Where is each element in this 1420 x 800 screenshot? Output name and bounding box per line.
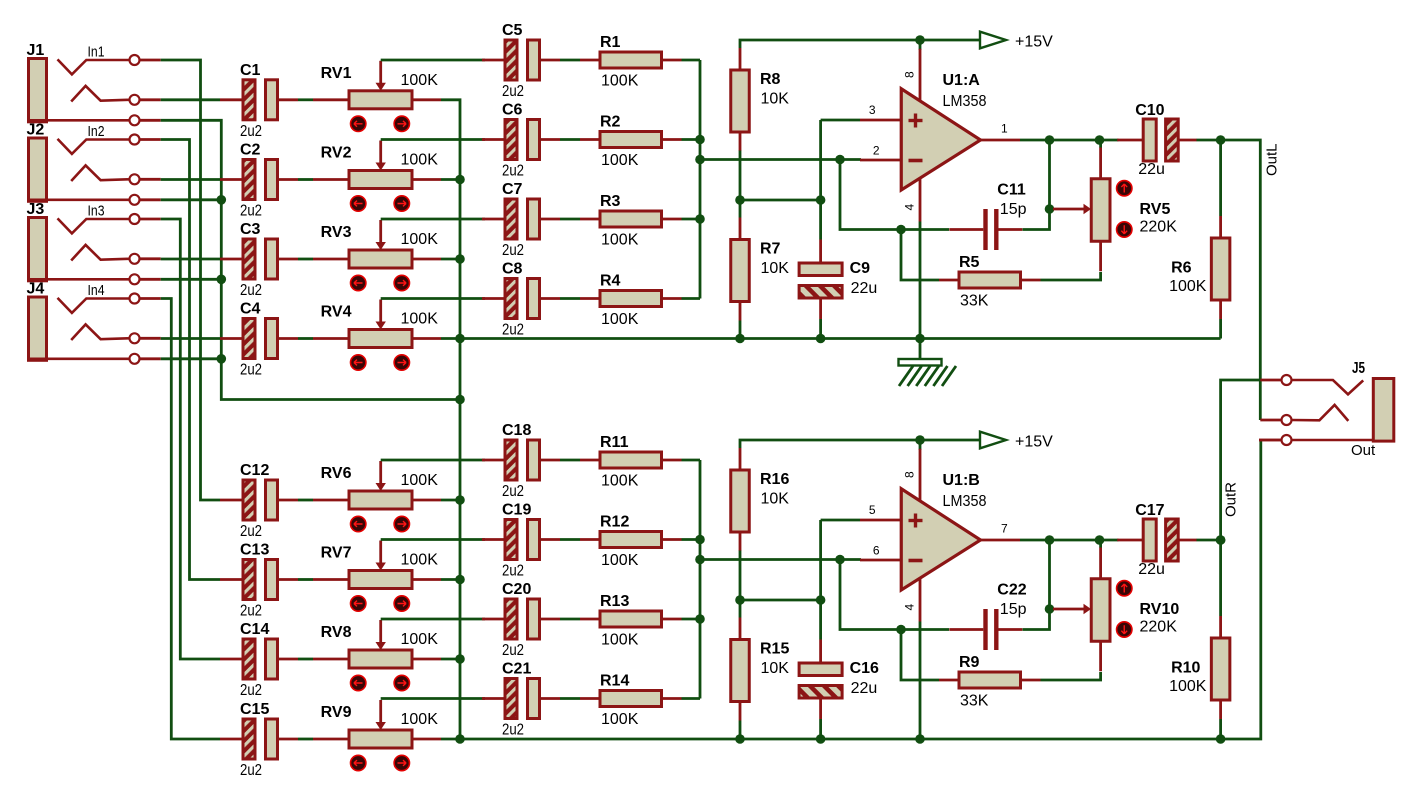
label C11 [997,182,1026,199]
capacitor C13 [220,560,298,600]
label C14 [240,621,269,638]
pin number 3 [869,103,876,117]
label R12 [600,514,629,531]
svg-text:J1: J1 [27,42,45,59]
wire C15 to RV9 [298,738,313,741]
value RV3 100K [401,231,439,248]
net label In1 [88,44,105,61]
wire divider to bias [740,199,821,202]
label C5 [502,22,523,39]
value RV6 100K [401,472,439,489]
junction wiper tap [1045,204,1055,214]
svg-text:R11: R11 [600,434,629,451]
label RV6 [321,465,352,482]
value C10 22u [1138,161,1165,178]
resistor R14 [580,691,682,707]
svg-text:C22: C22 [997,582,1026,599]
svg-text:100K: 100K [1169,678,1207,695]
wire pot top [1099,140,1102,148]
junction out node [1216,535,1226,545]
label C17 [1135,502,1164,519]
potentiometer RV6 [313,461,441,532]
junction bus R12 [695,535,705,545]
svg-text:C1: C1 [240,62,261,79]
capacitor C6 [482,120,560,160]
label J3 [27,201,45,218]
label R4 [600,273,621,290]
net OutL [1221,140,1261,420]
svg-text:100K: 100K [401,72,439,89]
svg-text:C14: C14 [240,621,269,638]
svg-text:10K: 10K [761,660,790,677]
svg-text:2u2: 2u2 [240,123,262,140]
svg-text:100K: 100K [401,552,439,569]
svg-text:RV10: RV10 [1140,601,1180,618]
junction R lower rail [735,734,745,744]
label C13 [240,542,269,559]
svg-text:C6: C6 [502,102,523,119]
resistor R6 [1211,216,1230,319]
value C18 2u2 [502,483,524,500]
capacitor C1 [220,80,298,120]
wire feedback [840,560,949,630]
svg-text:In4: In4 [88,282,105,299]
resistor R11 [580,452,682,468]
label R15 [760,641,789,658]
svg-text:RV4: RV4 [321,304,352,321]
resistor R1 [580,52,682,68]
svg-text:C16: C16 [850,660,879,677]
capacitor C2 [220,160,298,200]
wire C18 to R11 [560,459,580,462]
label RV2 [321,145,352,162]
resistor R8 [731,48,750,151]
junction pot bus [455,175,465,185]
label J5 [1352,360,1365,377]
wire C20 to R13 [560,618,580,621]
node summing bus B [699,460,702,699]
wire bias net [819,120,822,240]
capacitor C10 [1117,119,1197,161]
value RV5 220K [1140,219,1178,236]
value R3 100K [601,232,639,249]
resistor R4 [580,291,682,307]
label C21 [502,661,531,678]
wire pot bus top [441,100,460,739]
capacitor C5 [482,40,560,80]
junction +15V pin8 [915,35,925,45]
label J2 [27,122,45,139]
junction decoupling rail [816,734,826,744]
svg-text:2u2: 2u2 [502,322,524,339]
pin number 8 [903,471,917,478]
wire RV8 wiper row [381,618,485,621]
wire RV9 wiper row [381,697,485,700]
svg-text:10K: 10K [761,260,790,277]
svg-text:C11: C11 [997,182,1026,199]
wire sleeve [161,357,222,360]
wire pot terminal [441,578,460,581]
svg-text:100K: 100K [1169,278,1207,295]
wire pot terminal [441,499,460,502]
resistor R2 [580,132,682,148]
svg-text:2u2: 2u2 [240,682,262,699]
pin number 7 [1001,522,1008,536]
svg-text:2u2: 2u2 [502,642,524,659]
wire R11 to bus [682,459,701,462]
label C7 [502,181,523,198]
wire pot terminal [441,258,460,261]
pin number 5 [869,503,876,517]
label C12 [240,462,269,479]
junction output 2 [1095,135,1105,145]
value C21 2u2 [502,722,524,739]
value C5 2u2 [502,83,524,100]
svg-text:J4: J4 [27,281,45,298]
wire ring to cap [161,98,220,101]
wire C21 to R14 [560,697,580,700]
value R2 100K [601,152,639,169]
svg-text:22u: 22u [1138,161,1165,178]
svg-text:OutL: OutL [1264,143,1281,176]
svg-text:C9: C9 [850,260,871,277]
wire C14 to RV8 [298,658,313,661]
svg-text:100K: 100K [601,711,639,728]
svg-text:100K: 100K [601,473,639,490]
wire C12 to RV6 [298,499,313,502]
junction pin6 node [835,555,845,565]
value RV9 100K [401,711,439,728]
label C1 [240,62,261,79]
label C3 [240,221,261,238]
svg-text:R8: R8 [760,71,781,88]
wire In2 [161,140,220,580]
svg-text:22u: 22u [851,680,878,697]
junction decoupling rail [816,334,826,344]
junction pot bus [455,254,465,264]
junction feedback [896,225,906,235]
value C12 2u2 [240,523,262,540]
svg-text:Out: Out [1351,442,1376,459]
value C19 2u2 [502,563,524,580]
capacitor C22 [949,609,1022,650]
svg-text:10K: 10K [761,491,790,508]
label C15 [240,701,269,718]
wire RV7 wiper row [381,538,485,541]
svg-text:4: 4 [903,204,917,211]
svg-text:2u2: 2u2 [502,242,524,259]
svg-text:33K: 33K [960,693,989,710]
wire cap out [1197,139,1221,142]
wire R3 to bus [682,218,701,221]
junction output 1 [1045,135,1055,145]
wire feedback to R [901,630,939,681]
svg-text:RV7: RV7 [321,545,352,562]
wire pot terminal [441,178,460,181]
svg-text:C19: C19 [502,502,531,519]
junction output 2 [1095,535,1105,545]
wire divider node [739,151,742,218]
junction divider [735,195,745,205]
svg-text:J3: J3 [27,201,45,218]
svg-text:C5: C5 [502,22,523,39]
value C17 22u [1138,561,1165,578]
svg-text:+15V: +15V [1015,434,1053,451]
wire cap to output node [1023,209,1050,230]
wire C3 to RV3 [298,258,313,261]
value RV7 100K [401,552,439,569]
capacitor C3 [220,239,298,279]
net label Out [1351,442,1376,459]
wire In3 [161,219,220,659]
svg-text:100K: 100K [401,311,439,328]
capacitor C18 [482,440,560,480]
label R1 [600,34,621,51]
wire ring to cap [161,258,220,261]
svg-text:RV5: RV5 [1140,201,1171,218]
connector J5 [1259,375,1394,445]
value C22 15p [1000,601,1027,618]
junction bus R2 [695,135,705,145]
svg-text:2u2: 2u2 [240,762,262,779]
wire pin4 to rail B [919,622,922,740]
junction pot bus [455,334,465,344]
value C3 2u2 [240,282,262,299]
wire pin8 stub [919,40,922,50]
svg-text:100K: 100K [601,552,639,569]
svg-text:C13: C13 [240,542,269,559]
value R7 10K [761,260,790,277]
value RV8 100K [401,631,439,648]
value C2 2u2 [240,203,262,220]
value R15 10K [761,660,790,677]
label RV1 [321,65,352,82]
wire ground rail B [460,440,1261,739]
label RV5 [1140,201,1171,218]
wire R12 to bus [682,538,701,541]
junction pot bus [455,654,465,664]
wire output node [1020,539,1119,542]
wire C4 to RV4 [298,337,313,340]
wire C7 to R3 [560,218,580,221]
svg-text:In3: In3 [88,203,105,220]
wire pot terminal [441,658,460,661]
svg-text:2u2: 2u2 [502,163,524,180]
power +15V symbol [980,32,1006,49]
svg-text:C7: C7 [502,181,523,198]
wire divider node [739,551,742,618]
wire C1 to RV1 [298,98,313,101]
label RV3 [321,224,352,241]
value C14 2u2 [240,682,262,699]
label C6 [502,102,523,119]
op-amp U1:A [860,49,1020,222]
svg-text:100K: 100K [401,472,439,489]
net label In2 [88,123,105,140]
pin number 4 [903,204,917,211]
value R14 100K [601,711,639,728]
wire output to wiper [1048,140,1051,209]
wire cap out [1197,539,1221,542]
svg-text:+15V: +15V [1015,34,1053,51]
wire pin4 to rail [919,222,922,339]
pin number 2 [873,144,880,158]
junction divider [735,595,745,605]
potentiometer RV10 [1053,547,1132,671]
svg-text:R3: R3 [600,193,621,210]
label U1:B [943,472,980,489]
svg-text:In1: In1 [88,44,105,61]
ground [899,339,957,387]
capacitor C20 [482,599,560,639]
resistor R13 [580,611,682,627]
wire RV1 wiper row [381,59,485,62]
svg-text:2u2: 2u2 [240,603,262,620]
wire ring to cap [161,337,220,340]
capacitor C9 [799,240,842,320]
svg-text:R5: R5 [959,254,980,271]
capacitor C19 [482,520,560,560]
svg-text:R7: R7 [760,241,781,258]
pin number 4 [903,604,917,611]
junction out node [1216,135,1226,145]
wire R lower to rail [739,721,742,740]
svg-text:7: 7 [1001,522,1008,536]
junction R lower rail [735,334,745,344]
junction pot bus [455,734,465,744]
wire RV3 wiper row [381,218,485,221]
svg-text:100K: 100K [401,231,439,248]
label RV10 [1140,601,1180,618]
value R13 100K [601,632,639,649]
svg-text:100K: 100K [601,632,639,649]
junction OutR node [1216,535,1226,545]
wire pot terminal [441,738,460,741]
svg-text:100K: 100K [601,152,639,169]
svg-text:U1:A: U1:A [943,72,981,89]
label J4 [27,281,45,298]
wire ground rail A [460,337,1221,340]
junction sleeve [217,275,227,285]
svg-text:8: 8 [903,71,917,78]
value C9 22u [851,280,878,297]
svg-text:100K: 100K [401,152,439,169]
value C4 2u2 [240,362,262,379]
label C4 [240,301,261,318]
svg-text:2u2: 2u2 [502,563,524,580]
label R11 [600,434,629,451]
wire load bottom [1219,319,1222,339]
svg-text:LM358: LM358 [943,493,987,510]
value C13 2u2 [240,603,262,620]
svg-text:C2: C2 [240,142,261,159]
junction sleeve [217,354,227,364]
potentiometer RV8 [313,620,441,691]
svg-text:C3: C3 [240,221,261,238]
value U1:A LM358 [943,93,987,110]
connector J4 [28,294,161,364]
capacitor C14 [220,639,298,679]
label RV8 [321,624,352,641]
svg-text:In2: In2 [88,123,105,140]
value R11 100K [601,473,639,490]
svg-text:R13: R13 [600,593,629,610]
svg-text:2u2: 2u2 [240,203,262,220]
value R10 100K [1169,678,1207,695]
wire RV2 wiper row [381,138,485,141]
value C16 22u [851,680,878,697]
junction pot bus [455,575,465,585]
svg-text:OutR: OutR [1223,482,1240,517]
wire pin8 stub [919,440,922,450]
wire load bottom [1219,719,1222,739]
junction output 1 [1045,535,1055,545]
svg-text:2: 2 [873,144,880,158]
junction bus R3 [695,214,705,224]
label R8 [760,71,781,88]
svg-text:R14: R14 [600,673,629,690]
wire bias net [819,520,822,640]
wire load top [1219,140,1222,216]
svg-text:RV8: RV8 [321,624,352,641]
potentiometer RV1 [313,61,441,132]
capacitor C8 [482,279,560,319]
wire ring to cap [161,178,220,181]
junction bias [816,595,826,605]
svg-text:RV2: RV2 [321,145,352,162]
wire sleeve [161,198,222,201]
potentiometer RV4 [313,300,441,371]
wire feedback [840,160,949,230]
potentiometer RV5 [1053,147,1132,271]
svg-text:C20: C20 [502,581,531,598]
power +15V symbol [980,432,1006,449]
wire R4 to bus [682,297,701,300]
svg-text:R1: R1 [600,34,621,51]
svg-text:22u: 22u [851,280,878,297]
junction pot bus [455,495,465,505]
svg-text:5: 5 [869,503,876,517]
value R12 100K [601,552,639,569]
label R16 [760,471,789,488]
svg-text:2u2: 2u2 [240,523,262,540]
svg-text:15p: 15p [1000,201,1027,218]
value R4 100K [601,311,639,328]
label U1:A [943,72,981,89]
svg-text:R12: R12 [600,514,629,531]
wire RV6 wiper row [381,459,485,462]
resistor R15 [731,618,750,721]
svg-text:220K: 220K [1140,219,1178,236]
svg-text:33K: 33K [960,293,989,310]
junction pin2 node [835,155,845,165]
label C20 [502,581,531,598]
potentiometer RV9 [313,700,441,771]
svg-text:C8: C8 [502,261,523,278]
svg-text:RV3: RV3 [321,224,352,241]
wire R lower to rail [739,321,742,339]
label C10 [1135,102,1164,119]
svg-text:U1:B: U1:B [943,472,980,489]
svg-text:J2: J2 [27,122,45,139]
wire cap to output node [1023,609,1050,630]
svg-text:10K: 10K [761,91,790,108]
label C18 [502,422,531,439]
label R3 [600,193,621,210]
label RV4 [321,304,352,321]
connector J1 [28,55,161,125]
wire decoupling to rail [819,719,822,739]
